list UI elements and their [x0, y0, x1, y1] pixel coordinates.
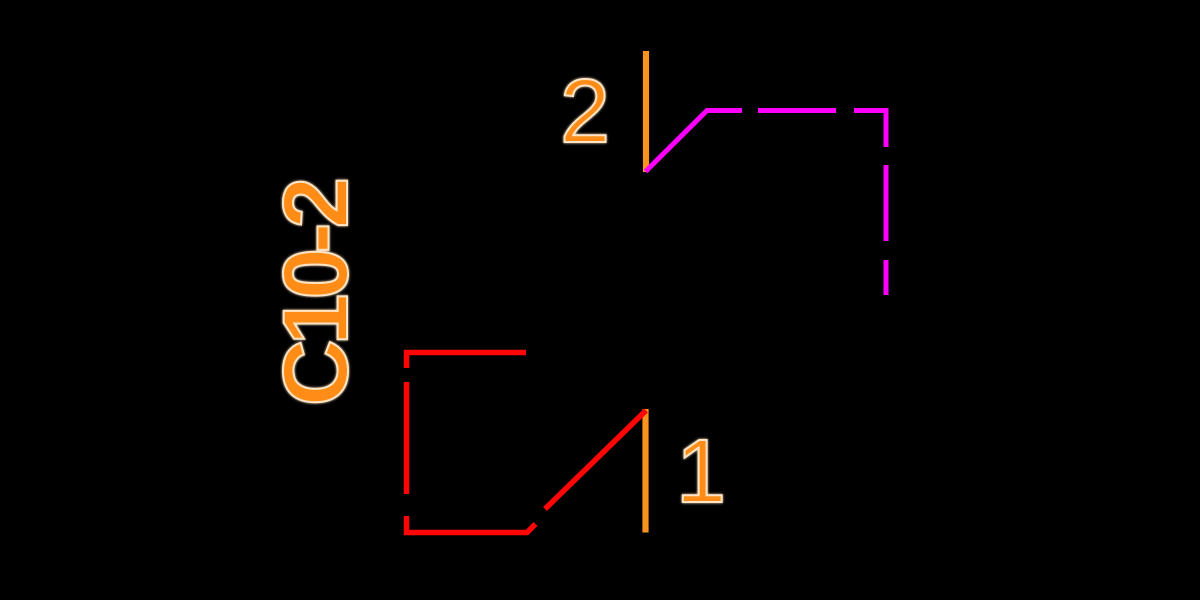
wire: orange pin-2 stub [643, 51, 649, 172]
wire: magenta net diagonal + first horizontal segment [646, 111, 743, 172]
red highlight box: bottom edge with corners [407, 516, 536, 533]
red highlight box: top edge with corner [407, 353, 527, 369]
wire: magenta dash segment (vertical) [884, 165, 889, 241]
wire: orange pin-1 stub [642, 409, 648, 533]
svg-text:C10-2: C10-2 [265, 180, 367, 406]
wire: magenta dash segment with corner [854, 111, 886, 148]
svg-text:1: 1 [676, 422, 726, 522]
wire: magenta dash segment (vertical end) [884, 260, 889, 295]
red diagonal dash to pin 1 [545, 411, 646, 510]
wire: magenta dash segment (horizontal) [758, 108, 836, 113]
red highlight box: left edge dash [404, 382, 410, 494]
svg-text:2: 2 [560, 62, 610, 162]
